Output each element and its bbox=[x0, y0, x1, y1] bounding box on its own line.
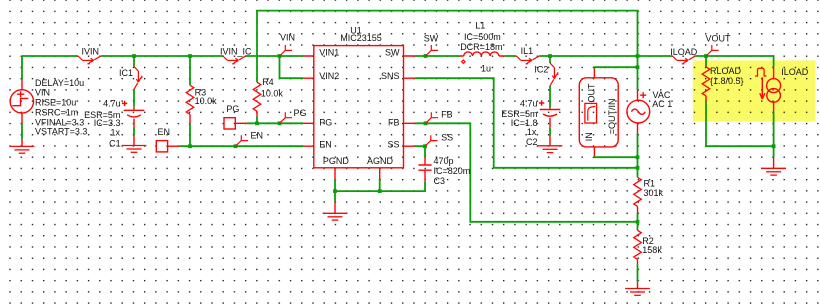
svg-text:470p: 470p bbox=[434, 156, 454, 166]
svg-text:10.0k: 10.0k bbox=[261, 89, 284, 99]
svg-text:IC=500m: IC=500m bbox=[464, 32, 501, 42]
junction VOUT top-link bbox=[636, 54, 640, 58]
current probe ILOAD bbox=[672, 56, 695, 64]
svg-text:DELAY=10u: DELAY=10u bbox=[35, 78, 84, 88]
resistor R1 301k bbox=[637, 168, 639, 178]
svg-text:IC=3.3: IC=3.3 bbox=[94, 118, 121, 128]
svg-text:158k: 158k bbox=[642, 245, 662, 255]
ground under C1 bbox=[122, 146, 147, 153]
svg-text:OUT: OUT bbox=[587, 83, 597, 103]
svg-text:VSTART=3.3: VSTART=3.3 bbox=[35, 126, 87, 136]
svg-text:1x: 1x bbox=[110, 128, 120, 138]
svg-text:PG: PG bbox=[294, 108, 307, 118]
wire R4 bottom bbox=[256, 117, 258, 124]
svg-text:AC 1: AC 1 bbox=[652, 99, 672, 109]
svg-text:VOUT: VOUT bbox=[706, 33, 732, 43]
current probe IC2 bbox=[550, 63, 558, 86]
svg-text:PGND: PGND bbox=[323, 156, 350, 166]
wire VOUT top link bbox=[257, 11, 638, 83]
svg-text:C2: C2 bbox=[526, 137, 538, 147]
junction FB row bbox=[636, 220, 640, 224]
wire R3 bottom bbox=[189, 123, 191, 146]
resistor RLOAD bbox=[705, 56, 707, 67]
svg-text:RISE=10u: RISE=10u bbox=[35, 97, 76, 107]
ground under ILOAD bbox=[773, 157, 775, 168]
junction ILOAD/RLOAD bottom bbox=[772, 144, 776, 148]
C1 value text bbox=[84, 99, 120, 149]
junction C2 branch bbox=[548, 54, 552, 58]
svg-text:RLOAD: RLOAD bbox=[710, 66, 742, 76]
junction PGND rail bbox=[333, 189, 337, 193]
wire OUT/IN top pin bbox=[594, 67, 637, 68]
svg-text:4.7u: 4.7u bbox=[520, 98, 538, 108]
svg-text:ILOAD: ILOAD bbox=[670, 47, 698, 57]
svg-text:SS: SS bbox=[441, 132, 453, 142]
C1 plus sign bbox=[122, 101, 127, 106]
svg-text:DCR=18m: DCR=18m bbox=[460, 42, 502, 52]
wire PGND/AGND stubs bbox=[335, 179, 380, 191]
capacitor C2 bbox=[549, 108, 551, 146]
inductor L1 bbox=[459, 52, 505, 64]
junction R4/PG wire bbox=[255, 121, 259, 125]
yellow highlight region bbox=[693, 60, 816, 121]
svg-text:IL1: IL1 bbox=[521, 46, 534, 56]
svg-text:MIC23155: MIC23155 bbox=[340, 33, 382, 43]
svg-text:IC=820m: IC=820m bbox=[434, 166, 471, 176]
svg-text:IVIN_IC: IVIN_IC bbox=[220, 47, 252, 57]
node flag PG bbox=[278, 121, 282, 125]
current probe IL1 bbox=[516, 56, 539, 64]
svg-text:L1: L1 bbox=[475, 21, 485, 31]
svg-text:SW: SW bbox=[385, 48, 400, 58]
junction R3/EN wire bbox=[188, 144, 192, 148]
resistor R2 158k bbox=[637, 222, 639, 231]
wire FB net bbox=[415, 123, 636, 222]
svg-text:EN: EN bbox=[158, 127, 171, 137]
svg-text:SNS: SNS bbox=[381, 71, 400, 81]
svg-text:SW: SW bbox=[424, 33, 439, 43]
capacitor C1 bbox=[133, 107, 135, 146]
V1 parameter text bbox=[35, 78, 87, 136]
wire PG bbox=[235, 122, 247, 124]
svg-text:ILOAD: ILOAD bbox=[781, 67, 809, 77]
junction R3 branch bbox=[188, 54, 192, 58]
svg-text:RSRC=1m: RSRC=1m bbox=[35, 107, 78, 117]
wire C1 branch bbox=[133, 56, 135, 136]
svg-text:PG: PG bbox=[226, 104, 239, 114]
svg-text:R4: R4 bbox=[262, 77, 274, 87]
svg-text:EN: EN bbox=[319, 139, 332, 149]
svg-text:VIN: VIN bbox=[35, 88, 50, 98]
IC U1 MIC23155 bbox=[303, 46, 415, 179]
ground under V1 bbox=[21, 139, 23, 146]
svg-text:SS: SS bbox=[387, 139, 399, 149]
svg-text:FB: FB bbox=[388, 117, 400, 127]
svg-text:IC2: IC2 bbox=[534, 65, 548, 75]
terminal PG bbox=[224, 118, 235, 129]
junction C1 branch bbox=[132, 54, 136, 58]
node flag VIN bbox=[280, 45, 293, 56]
current source ILOAD bbox=[755, 67, 781, 112]
svg-text:VIN2: VIN2 bbox=[319, 71, 339, 81]
current probe IVIN_IC bbox=[223, 56, 246, 64]
U1 pin names bbox=[319, 48, 400, 166]
wire VIN2 link bbox=[280, 56, 304, 78]
resistor R3 10.0k bbox=[186, 85, 194, 114]
wire R3 top bbox=[189, 56, 191, 85]
junction OUT/IN top bbox=[636, 65, 640, 69]
wire SW node bbox=[415, 56, 774, 67]
svg-text:=OUT/IN: =OUT/IN bbox=[607, 98, 617, 134]
svg-text:C3: C3 bbox=[434, 176, 446, 186]
node flag EN bbox=[234, 144, 238, 148]
svg-text:301k: 301k bbox=[644, 188, 664, 198]
wire ILOAD bottom bbox=[773, 112, 775, 157]
ground under C2 bbox=[538, 146, 563, 153]
node flag SW bbox=[424, 54, 428, 58]
wire SS net bbox=[415, 146, 425, 157]
junction VIN node bbox=[278, 54, 282, 58]
svg-text:C1: C1 bbox=[109, 139, 121, 149]
wire C3 bottom to ground rail bbox=[335, 182, 425, 192]
svg-text:VIN: VIN bbox=[280, 32, 295, 42]
svg-text:PG: PG bbox=[319, 117, 332, 127]
wire EN bbox=[168, 145, 180, 147]
capacitor C3 470p bbox=[418, 157, 431, 181]
wire V1 vertical bbox=[21, 56, 23, 139]
svg-text:IC1: IC1 bbox=[119, 68, 133, 78]
wire OUT/IN bottom pin bbox=[594, 155, 637, 158]
junction VOUT node bbox=[704, 54, 708, 58]
terminal EN bbox=[156, 141, 167, 152]
C2 plus sign bbox=[539, 100, 544, 105]
svg-text:1u: 1u bbox=[481, 63, 491, 73]
wire VIN top rail left bbox=[22, 55, 303, 57]
current probe IC1 bbox=[134, 67, 142, 90]
svg-text:{1.8/0.5}: {1.8/0.5} bbox=[710, 76, 744, 86]
junction SNS row bbox=[636, 166, 640, 170]
resistor R4 10.0k bbox=[253, 82, 261, 111]
node flag FB bbox=[424, 121, 428, 125]
voltage source V1 (VIN step source) bbox=[10, 80, 33, 123]
svg-text:R1: R1 bbox=[644, 178, 656, 188]
voltage source VAC bbox=[627, 90, 650, 133]
probe block OUT/IN bbox=[579, 69, 618, 157]
svg-text:AGND: AGND bbox=[367, 156, 394, 166]
svg-text:10.0k: 10.0k bbox=[195, 96, 218, 106]
ground under U1 bbox=[334, 191, 336, 202]
C2 value text bbox=[501, 98, 537, 147]
svg-text:EN: EN bbox=[251, 130, 264, 140]
svg-text:1x: 1x bbox=[527, 127, 537, 137]
node flag SS bbox=[423, 144, 427, 148]
wire VAC branch bbox=[637, 56, 639, 170]
wire C2 branch bbox=[549, 56, 551, 136]
node flag VOUT bbox=[706, 45, 719, 56]
ground under R2 bbox=[637, 282, 639, 289]
svg-text:IVIN: IVIN bbox=[82, 46, 100, 56]
wire SNS net bbox=[415, 78, 636, 168]
svg-text:VIN1: VIN1 bbox=[319, 48, 339, 58]
junction OUT/IN bottom bbox=[636, 155, 640, 159]
svg-text:IN: IN bbox=[584, 132, 594, 141]
junction AGND rail bbox=[378, 189, 382, 193]
current probe IVIN bbox=[78, 56, 101, 64]
svg-text:FB: FB bbox=[441, 109, 453, 119]
svg-text:4.7u: 4.7u bbox=[103, 99, 121, 109]
